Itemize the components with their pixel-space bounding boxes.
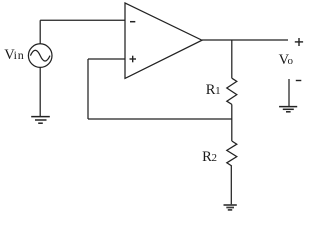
wire feedback vertical — [87, 59, 89, 119]
svg-text:R1: R1 — [206, 82, 221, 98]
wire R2 to ground — [230, 166, 232, 204]
minus terminal mark — [296, 80, 302, 82]
op-amp U1 — [125, 3, 202, 78]
op-amp plus pin mark — [130, 56, 137, 63]
wire source bottom to ground — [39, 67, 41, 116]
svg-text:Vin: Vin — [4, 47, 24, 63]
ground (source) — [31, 117, 50, 124]
wire junction to R2 — [231, 119, 233, 141]
plus terminal mark — [295, 38, 303, 46]
ground (output) — [279, 107, 297, 112]
voltage source Vin — [28, 44, 52, 68]
wire output terminal ground — [288, 79, 290, 106]
ground (bottom) — [224, 205, 237, 210]
wire feedback horizontal — [88, 118, 232, 120]
wire op-amp output — [202, 39, 288, 41]
svg-text:R2: R2 — [202, 149, 217, 165]
resistor R2 — [227, 141, 237, 166]
wire corner to op-amp inverting input — [40, 19, 125, 21]
op-amp minus pin mark — [130, 21, 135, 23]
node at output — [231, 40, 233, 78]
resistor R1 — [227, 78, 237, 104]
wire source top to corner — [39, 20, 41, 44]
wire non-inverting input — [88, 58, 125, 60]
svg-text:Vo: Vo — [279, 52, 294, 68]
wire R1 bottom to junction — [231, 104, 233, 119]
